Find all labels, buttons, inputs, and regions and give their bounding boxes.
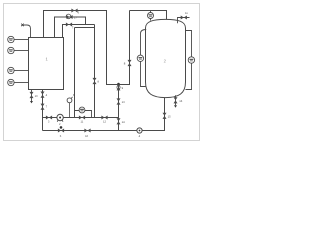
valve V11 under bypass <box>79 116 85 120</box>
valve V8 <box>128 60 132 66</box>
vessel V2 <box>146 19 186 97</box>
svg-text:8: 8 <box>98 81 100 84</box>
valve V18 on drop line <box>93 78 97 84</box>
svg-text:5: 5 <box>60 135 62 138</box>
svg-text:3: 3 <box>48 121 50 124</box>
svg-text:7: 7 <box>46 106 48 109</box>
svg-text:17: 17 <box>74 17 77 20</box>
valve V14 <box>117 118 121 124</box>
vent valve top right <box>178 18 190 24</box>
svg-text:14: 14 <box>122 121 125 124</box>
wire pipe A <box>74 28 76 118</box>
pump line <box>43 117 119 119</box>
wire pipe B <box>94 25 96 118</box>
valve V7 control <box>66 15 72 19</box>
svg-text:12: 12 <box>103 121 106 124</box>
wire left leg down <box>119 11 130 85</box>
junction dot <box>117 83 120 86</box>
left level gauge <box>141 30 147 87</box>
instrument PI2 <box>8 47 14 53</box>
wire PI2-T1 <box>14 50 28 52</box>
svg-text:4: 4 <box>46 94 48 97</box>
wire vessel top loop <box>130 11 167 22</box>
pump P4 <box>137 128 142 133</box>
wire loop2 <box>55 17 86 38</box>
wire PI-top <box>75 27 95 29</box>
valve V15 on vessel outlet <box>163 113 167 119</box>
svg-text:10: 10 <box>35 95 38 98</box>
svg-text:9: 9 <box>122 87 124 90</box>
wire PI1-T1 <box>14 39 28 41</box>
vent swan neck on T1 top <box>24 25 31 38</box>
wire loop1 top <box>44 11 119 85</box>
ball valve V9 <box>117 84 121 90</box>
instrument PI4 <box>8 79 14 85</box>
svg-text:8: 8 <box>124 61 126 65</box>
valve V17 <box>66 23 72 27</box>
valve V12 <box>101 116 107 120</box>
tank drain stub <box>31 90 33 102</box>
valve V10 <box>84 129 90 133</box>
check valve CV <box>41 104 45 110</box>
border frame <box>4 4 200 141</box>
right level gauge <box>186 31 192 90</box>
valve V13 <box>117 98 121 104</box>
valve V6 <box>71 9 77 13</box>
right drain valve <box>175 95 177 105</box>
valve VD2 <box>41 92 45 98</box>
instrument PI1 <box>8 36 14 42</box>
svg-text:11: 11 <box>81 121 84 124</box>
wire loop3 <box>63 25 95 38</box>
instrument on vessel top <box>150 11 152 21</box>
svg-text:11: 11 <box>185 12 188 15</box>
valve V3 <box>46 116 52 120</box>
svg-text:16: 16 <box>179 100 182 103</box>
valve VD1 <box>30 92 34 98</box>
instrument PI3 <box>8 67 14 73</box>
svg-text:10: 10 <box>85 135 88 138</box>
valve V5 with cap <box>58 129 64 133</box>
svg-text:15: 15 <box>168 115 171 118</box>
svg-text:6: 6 <box>78 12 80 15</box>
pump P2 <box>57 114 63 120</box>
wire PI4-T1 <box>14 82 28 84</box>
gauge G6 <box>69 103 71 118</box>
wire main drop <box>118 85 120 131</box>
svg-text:13: 13 <box>122 101 125 104</box>
svg-text:2: 2 <box>59 123 61 126</box>
wire PI3-T1 <box>14 70 28 72</box>
svg-text:4: 4 <box>139 135 141 138</box>
bottom line <box>43 98 165 131</box>
tank T1 <box>29 38 64 90</box>
bypass loop <box>75 111 92 118</box>
svg-text:7: 7 <box>72 26 74 29</box>
tank outlet line <box>42 90 44 131</box>
